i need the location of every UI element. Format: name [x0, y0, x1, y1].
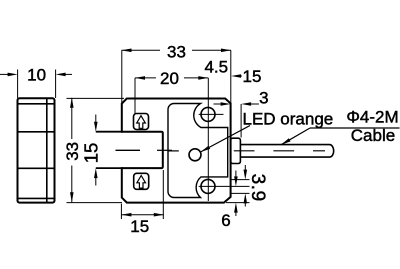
svg-text:Φ4-2M: Φ4-2M [346, 108, 398, 127]
svg-text:20: 20 [160, 69, 179, 88]
svg-text:10: 10 [27, 66, 46, 85]
svg-text:3: 3 [259, 88, 268, 107]
svg-text:15: 15 [130, 217, 149, 236]
svg-text:15: 15 [81, 143, 102, 164]
svg-text:6: 6 [221, 211, 230, 230]
svg-text:Cable: Cable [351, 126, 395, 145]
svg-text:3.9: 3.9 [247, 174, 268, 202]
svg-text:33: 33 [167, 42, 186, 61]
svg-text:LED orange: LED orange [243, 109, 334, 128]
svg-text:15: 15 [243, 67, 262, 86]
svg-text:33: 33 [63, 142, 82, 161]
svg-text:4.5: 4.5 [204, 58, 228, 77]
